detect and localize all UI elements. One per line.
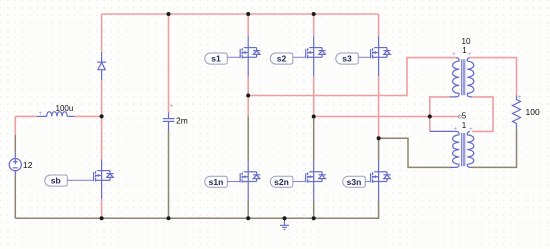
junction top rail / s1 drain — [246, 12, 250, 16]
svg-text:s2n: s2n — [274, 177, 289, 187]
wire T2 secondary bottom to load bottom — [472, 129, 517, 168]
wire left vertical upper — [14, 116, 16, 135]
gate label s2n — [270, 176, 293, 187]
gate label s3 — [336, 53, 359, 64]
wire capacitor top — [168, 14, 170, 113]
wire s2 source — [313, 76, 315, 116]
wire T1 secondary top to load — [470, 58, 517, 96]
svg-text:s3: s3 — [342, 53, 352, 63]
wire top rail — [102, 13, 379, 15]
wire T1 primary bottom to mid rail — [430, 97, 450, 117]
voltage source V1 12 — [9, 153, 21, 177]
svg-text:+: + — [469, 127, 473, 133]
wire input rail left — [15, 115, 37, 117]
svg-text:s1: s1 — [211, 53, 221, 63]
wire mid rail leg2 node — [314, 116, 460, 118]
wire s2 drain — [313, 14, 315, 36]
junction s3 source node C — [377, 136, 381, 140]
junction bottom rail / ground — [283, 216, 287, 220]
transistor s2 — [306, 36, 326, 76]
svg-text:+: + — [453, 126, 457, 132]
transistor s1 — [240, 36, 260, 76]
transistor s1n — [240, 161, 260, 201]
svg-text:10: 10 — [462, 37, 471, 46]
gate label s1n — [205, 176, 228, 187]
svg-text:+: + — [452, 52, 456, 58]
transformer T1 — [450, 58, 474, 97]
junction top rail / capacitor — [167, 12, 171, 16]
gate label s1 — [205, 53, 228, 64]
wire s1 drain — [247, 14, 249, 36]
wire s1 source to s1n drain — [247, 117, 249, 161]
gate label s3n — [343, 176, 366, 187]
wire T1 secondary bottom to T2 secondary top — [472, 97, 493, 131]
wire s2 source to s2n drain — [313, 117, 315, 161]
transistor s2n — [306, 161, 326, 201]
junction bottom rail / sb source — [100, 216, 104, 220]
wire sb gate — [67, 179, 94, 181]
ground — [280, 218, 289, 229]
transistor s3 — [371, 36, 391, 76]
gate label s2 — [270, 53, 293, 64]
junction top rail / s2 drain — [312, 12, 316, 16]
junction bottom rail / s2n source — [312, 216, 316, 220]
wire s1 source — [247, 76, 249, 116]
transistor sb — [94, 159, 114, 199]
svg-text:100u: 100u — [56, 104, 74, 113]
wire s1n gate — [228, 181, 241, 183]
junction s2 source node B — [312, 115, 316, 119]
svg-text:+: + — [170, 104, 174, 110]
svg-text:s1n: s1n — [209, 177, 224, 187]
wire diode bottom to node — [101, 80, 103, 116]
svg-text:+: + — [39, 111, 43, 117]
wire s3 node to T2 primary bottom — [379, 138, 453, 167]
wire s3 node to s3n drain — [378, 138, 380, 160]
junction bottom rail / s1n source — [246, 216, 250, 220]
wire s3 gate — [359, 56, 371, 58]
wire s2 gate — [293, 56, 306, 58]
wire s3 source — [378, 76, 380, 138]
wire sb source — [101, 199, 103, 218]
wire s3n gate — [366, 181, 371, 183]
open wire end — [458, 115, 461, 118]
svg-text:s3n: s3n — [347, 177, 362, 187]
diode D1 — [97, 52, 106, 80]
transistor s3n — [371, 161, 391, 201]
wire inductor to node — [75, 115, 102, 117]
gate label sb — [45, 175, 68, 186]
svg-text:+: + — [518, 95, 522, 101]
svg-text:s2: s2 — [277, 53, 287, 63]
wire capacitor bottom — [168, 130, 170, 218]
wire left vertical to source — [14, 135, 16, 153]
wire sb drain — [101, 116, 103, 159]
svg-text:2m: 2m — [176, 116, 188, 126]
junction input rail / diode leg — [100, 114, 104, 118]
wire source to bottom rail — [14, 177, 16, 219]
wire s2n gate — [293, 181, 306, 183]
wire s3 drain — [378, 14, 380, 36]
wire bottom rail — [15, 201, 378, 219]
wire s1n source — [247, 201, 249, 219]
svg-text:1: 1 — [462, 121, 467, 130]
wire mid node down to T2 primary top — [429, 117, 431, 132]
capacitor C1 2m — [163, 113, 175, 131]
wire s1 gate — [228, 56, 241, 58]
wire leg1 midpoint to T1 primary top — [248, 58, 456, 96]
svg-text:5: 5 — [462, 111, 467, 120]
wire s2n source — [313, 201, 315, 219]
svg-text:100: 100 — [526, 107, 540, 117]
wire diode top — [101, 14, 103, 52]
svg-text:sb: sb — [51, 176, 61, 186]
svg-text:1: 1 — [462, 46, 467, 55]
inductor L1 100u — [37, 112, 75, 117]
transformer T2 — [430, 131, 474, 167]
junction bottom rail / capacitor — [167, 216, 171, 220]
svg-text:12: 12 — [23, 160, 33, 170]
resistor R1 100 — [513, 96, 521, 129]
junction s1 source node A — [246, 94, 250, 98]
junction node B / T2 primary — [428, 115, 432, 119]
